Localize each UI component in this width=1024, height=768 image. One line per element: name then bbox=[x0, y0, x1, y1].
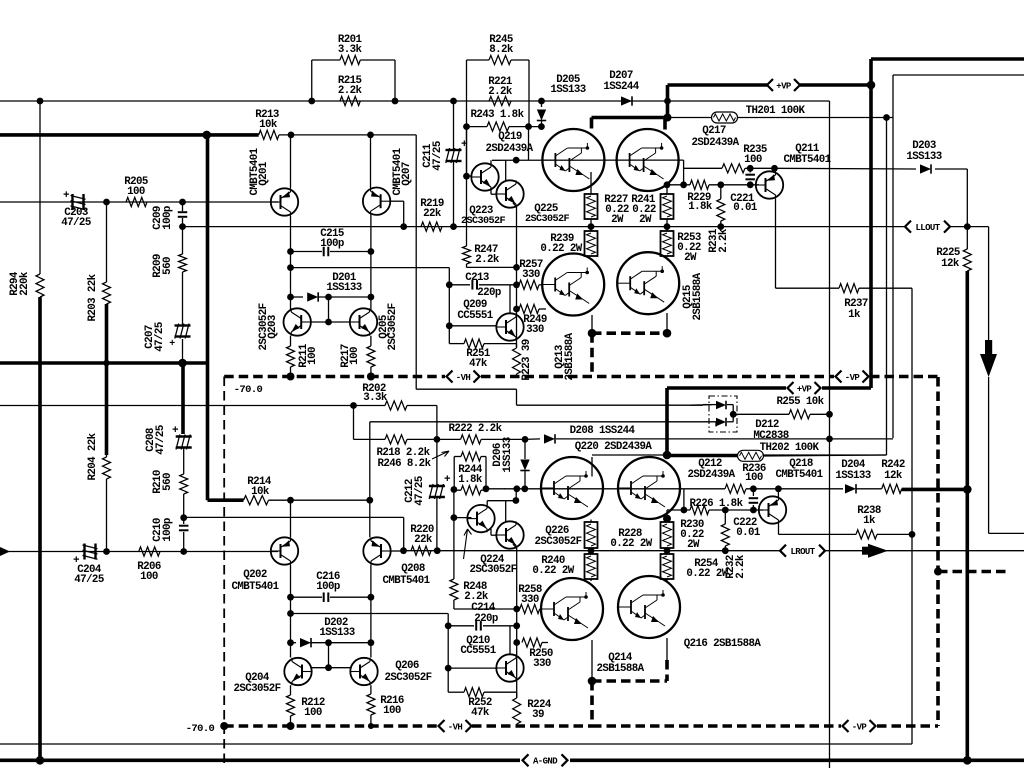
wire base link Q204-Q206 bbox=[312, 667, 350, 669]
svg-text:100p: 100p bbox=[162, 518, 174, 542]
label Q218 bbox=[775, 458, 823, 481]
label R214 bbox=[247, 476, 272, 498]
label R224 bbox=[527, 699, 552, 721]
label R239 bbox=[540, 233, 582, 255]
label Q215 bbox=[682, 272, 704, 320]
resistor R235 bbox=[684, 164, 775, 173]
node junction x516 y267 bbox=[513, 264, 520, 271]
capacitor C222 bbox=[749, 489, 759, 510]
wire +VP right vertical x=871 bbox=[869, 59, 873, 388]
resistor R218 bbox=[354, 435, 437, 444]
label C222 bbox=[733, 517, 761, 539]
label R212 bbox=[301, 697, 325, 719]
resistor R255 bbox=[789, 410, 810, 419]
label Q212 bbox=[687, 458, 735, 481]
svg-text:47/25: 47/25 bbox=[432, 141, 444, 171]
wire emitter dashed lower bbox=[592, 660, 667, 726]
svg-text:12k: 12k bbox=[884, 470, 903, 482]
net flag LROUT bbox=[780, 545, 825, 557]
resistor R247 bbox=[463, 246, 517, 267]
svg-text:-VH: -VH bbox=[448, 722, 463, 732]
label C221 bbox=[730, 193, 758, 214]
resistor R223 bbox=[513, 344, 521, 377]
wire thick input bus y=134.9 bbox=[0, 133, 259, 137]
svg-text:Q208: Q208 bbox=[401, 563, 425, 575]
label Q205 bbox=[378, 303, 399, 350]
label Q216 bbox=[684, 638, 762, 650]
resistor R243 bbox=[467, 122, 542, 131]
wire D212 bottom feed bbox=[715, 422, 717, 427]
resistor R222 bbox=[437, 435, 525, 444]
capacitor C216 bbox=[291, 592, 371, 602]
svg-text:Q203: Q203 bbox=[267, 315, 279, 339]
svg-text:0.01: 0.01 bbox=[733, 202, 758, 214]
resistor R237 bbox=[776, 284, 913, 293]
label -70.0 bottom bbox=[186, 723, 215, 735]
capacitor C221 bbox=[745, 168, 755, 185]
resistor R215 bbox=[340, 96, 360, 105]
svg-text:CMBT5401: CMBT5401 bbox=[775, 469, 823, 481]
label R258 bbox=[518, 584, 542, 606]
svg-text:TH201 100K: TH201 100K bbox=[746, 105, 806, 117]
wire right vertical x=886 bbox=[762, 118, 886, 456]
wire Q208 emitter up bbox=[369, 500, 371, 537]
label C207 bbox=[144, 322, 175, 352]
label R217 bbox=[340, 344, 361, 368]
wire feedback vertical x=912 bbox=[911, 288, 913, 744]
svg-text:1.8k: 1.8k bbox=[688, 201, 713, 213]
node junction R232 bottom bbox=[722, 547, 729, 554]
label R215 bbox=[338, 75, 363, 97]
svg-text:100: 100 bbox=[127, 186, 145, 198]
label D212 bbox=[753, 419, 788, 442]
svg-text:2SC3052F: 2SC3052F bbox=[387, 303, 399, 350]
label R236 bbox=[742, 463, 766, 484]
resistor R245 bbox=[467, 55, 530, 101]
transistor Q213 bbox=[542, 254, 604, 316]
resistor R228 bbox=[585, 520, 598, 551]
capacitor C203 bbox=[63, 190, 86, 210]
svg-text:100p: 100p bbox=[316, 581, 340, 593]
wire right box vertical x=829 bbox=[829, 101, 831, 768]
svg-text:-VP: -VP bbox=[852, 722, 868, 732]
net flag +VP lower bbox=[788, 382, 821, 394]
transistor Q219 bbox=[542, 129, 604, 191]
svg-text:330: 330 bbox=[521, 594, 539, 606]
wire x988 lower bbox=[989, 377, 1024, 533]
transistor Q225 bbox=[496, 180, 523, 207]
resistor R258 bbox=[520, 604, 543, 613]
label R294 bbox=[9, 271, 31, 296]
resistor R213 bbox=[259, 130, 279, 139]
node junction D202 right bbox=[368, 639, 375, 646]
wire thick VP down bbox=[667, 388, 871, 455]
label C204 bbox=[74, 564, 104, 586]
node junction base link bbox=[325, 319, 332, 326]
wire dashed stub y=571.5 bbox=[938, 570, 1006, 574]
label C212 bbox=[404, 476, 426, 506]
svg-text:1SS133: 1SS133 bbox=[835, 470, 870, 482]
diode D208 bbox=[544, 434, 555, 443]
node junction R219 right bbox=[450, 223, 457, 230]
svg-text:2SD2439A: 2SD2439A bbox=[485, 143, 533, 155]
node junction R214 a bbox=[287, 497, 294, 504]
node junction TH201 right bbox=[883, 114, 890, 121]
transistor Q205 bbox=[350, 308, 377, 335]
svg-text:R222 2.2k: R222 2.2k bbox=[449, 423, 503, 435]
svg-text:0.22 2W: 0.22 2W bbox=[532, 565, 574, 577]
node junction Q208 base bbox=[400, 547, 407, 554]
label R241 bbox=[631, 194, 656, 226]
svg-text:+: + bbox=[63, 190, 70, 202]
thermistor TH201 bbox=[712, 112, 738, 123]
wire LROUT to edge bbox=[825, 550, 1024, 552]
node junction C213 left bbox=[446, 281, 453, 288]
node junction +VP right bbox=[867, 81, 876, 90]
svg-text:Q220 2SD2439A: Q220 2SD2439A bbox=[575, 441, 653, 453]
svg-text:-70.0: -70.0 bbox=[234, 384, 263, 396]
label D204 bbox=[835, 459, 870, 482]
node junction emitter bus bbox=[588, 329, 597, 338]
diode D206 bbox=[520, 439, 529, 489]
resistor R209 bbox=[179, 227, 187, 326]
label R231 bbox=[708, 228, 730, 253]
resistor R229 bbox=[690, 180, 709, 189]
svg-text:100p: 100p bbox=[162, 206, 174, 230]
label R213 bbox=[255, 109, 279, 131]
resistor R252 bbox=[448, 688, 517, 697]
resistor R257 bbox=[519, 280, 542, 289]
net flag -VP upper bbox=[836, 371, 869, 383]
svg-text:R255 10k: R255 10k bbox=[776, 396, 824, 408]
node junction R294 top bbox=[37, 98, 44, 105]
label R226 bbox=[690, 498, 744, 510]
resistor R226 bbox=[690, 505, 709, 514]
svg-text:2W: 2W bbox=[684, 252, 697, 264]
label R255 bbox=[776, 396, 824, 408]
svg-text:2W: 2W bbox=[687, 539, 700, 551]
node junction C216 right bbox=[368, 594, 375, 601]
node junction bus x41 bbox=[0, 0, 1, 1]
svg-text:100: 100 bbox=[744, 154, 762, 166]
svg-text:1.8k: 1.8k bbox=[458, 474, 483, 486]
node junction x516 y285 bbox=[513, 281, 520, 288]
node junction thick bus bbox=[202, 131, 211, 140]
wire base rail lower bigq bbox=[504, 488, 684, 490]
wire Q209 collector bbox=[509, 285, 511, 314]
svg-text:LLOUT: LLOUT bbox=[915, 223, 940, 233]
transistor Q208 bbox=[363, 537, 390, 564]
wire dashed inner x=447.5 bbox=[0, 0, 1, 1]
node junction R241 bottom bbox=[664, 223, 671, 230]
node junction dashed tr bbox=[0, 0, 1, 1]
wire A-GND bus bbox=[0, 758, 1024, 762]
thermistor TH202 bbox=[738, 450, 764, 461]
resistor R201 bbox=[312, 55, 395, 101]
wire Q224 base lead bbox=[454, 489, 516, 535]
svg-text:2SD2439A: 2SD2439A bbox=[687, 469, 735, 481]
wire top thin rail bbox=[893, 75, 1024, 438]
svg-text:100: 100 bbox=[745, 472, 763, 484]
svg-text:2SC3052F: 2SC3052F bbox=[233, 683, 280, 695]
wire Q202 base bbox=[271, 551, 278, 553]
diode D201 bbox=[291, 292, 371, 301]
resistor R230 bbox=[661, 519, 674, 551]
wire dashed box left2 bbox=[0, 0, 1, 1]
wire bias vertical x=416 bbox=[416, 135, 516, 405]
label R216 bbox=[380, 695, 404, 717]
node junction Q201 emitter top bbox=[288, 132, 295, 139]
resistor R214 bbox=[244, 496, 370, 505]
wire Q210 base bbox=[448, 667, 496, 669]
node junction x416 y405 bbox=[0, 0, 1, 1]
node junction C215 left bbox=[287, 248, 294, 255]
label R204 bbox=[87, 432, 99, 480]
node junction x516 y642 bbox=[513, 639, 520, 646]
node junction R235 corner bbox=[680, 181, 687, 188]
wire Q226 emitter column lower bbox=[513, 544, 517, 698]
svg-text:2.2k: 2.2k bbox=[475, 254, 500, 266]
resistor R203 bbox=[103, 202, 111, 455]
wire bias line to D212 top bbox=[517, 404, 704, 406]
wire thick C208 feed bbox=[181, 363, 185, 434]
svg-text:1SS133: 1SS133 bbox=[502, 437, 514, 472]
node junction dashed bl bbox=[220, 722, 228, 730]
label R247 bbox=[474, 244, 500, 266]
label Q213 bbox=[554, 332, 576, 380]
svg-text:560: 560 bbox=[162, 257, 174, 275]
svg-text:CC5551: CC5551 bbox=[457, 310, 493, 322]
label TH202 bbox=[760, 442, 820, 454]
node junction y267 left bbox=[287, 264, 294, 271]
node junction R255 right bbox=[826, 411, 833, 418]
wire R244 to base rail bbox=[486, 488, 505, 490]
label R202 bbox=[362, 383, 388, 404]
wire thick collector run bbox=[592, 118, 668, 129]
svg-text:LROUT: LROUT bbox=[790, 547, 815, 557]
label Q208 bbox=[382, 563, 430, 587]
transistor Q218 bbox=[759, 496, 786, 523]
svg-text:Q202: Q202 bbox=[243, 569, 267, 581]
wire Q216 emitter dn bbox=[666, 638, 668, 662]
node junction C209 top bbox=[179, 199, 186, 206]
wire Q214 emitter dn bbox=[591, 640, 593, 681]
node junction R225 top bbox=[964, 223, 971, 230]
wire Q215 emitter lead bbox=[666, 313, 668, 333]
svg-text:330: 330 bbox=[526, 324, 544, 336]
label C213 bbox=[465, 272, 501, 299]
node junction base rail bbox=[513, 157, 520, 164]
node junction emitter Q212 bbox=[663, 515, 671, 523]
resistor R253 bbox=[661, 227, 674, 256]
label -70.0 top bbox=[234, 384, 263, 396]
node junction C214 left bbox=[445, 622, 452, 629]
arrow LROUT bbox=[862, 544, 888, 558]
label D205 bbox=[550, 74, 585, 96]
label R225 bbox=[936, 247, 960, 270]
wire +VP flag line bbox=[668, 83, 872, 87]
node junction bus R216 bbox=[368, 723, 374, 729]
wire input line y=202 bbox=[0, 201, 271, 203]
label R245 bbox=[489, 34, 514, 56]
node junction R228 bottom bbox=[588, 547, 595, 554]
resistor R227 bbox=[585, 172, 598, 227]
wire thick output vertical x=967 bbox=[965, 271, 969, 760]
label R257 bbox=[519, 259, 543, 281]
transistor Q210 bbox=[496, 654, 523, 681]
svg-text:100: 100 bbox=[307, 347, 319, 365]
node junction R220 right bbox=[434, 547, 441, 554]
wire C207 bottom bbox=[182, 339, 184, 363]
svg-text:Q217: Q217 bbox=[702, 125, 726, 137]
svg-text:1SS133: 1SS133 bbox=[319, 627, 354, 639]
wire base rail upper bigq bbox=[491, 160, 684, 194]
svg-text:2SC3052F: 2SC3052F bbox=[469, 564, 516, 576]
node junction bus x107 bbox=[103, 360, 109, 366]
label D201 bbox=[326, 272, 361, 294]
label Q209 bbox=[457, 299, 493, 322]
wire TH202 thick feed bbox=[667, 454, 738, 458]
label R211 bbox=[298, 343, 319, 368]
node junction D208 x829 bbox=[826, 436, 833, 443]
svg-text:2SC3052F: 2SC3052F bbox=[384, 672, 431, 684]
resistor R225 bbox=[963, 227, 971, 271]
wire y=101 to box corner bbox=[668, 100, 830, 102]
svg-text:47/25: 47/25 bbox=[414, 476, 426, 506]
wire LLOUT corner down bbox=[988, 227, 990, 352]
svg-text:Q201: Q201 bbox=[258, 161, 270, 186]
resistor R221 bbox=[489, 96, 511, 105]
label R223 bbox=[521, 339, 533, 380]
label R248 bbox=[463, 581, 489, 603]
transistor Q215 bbox=[617, 252, 679, 314]
net flag A-GND bbox=[523, 754, 568, 766]
label Q214 bbox=[596, 652, 644, 675]
node junction R244 right bbox=[483, 485, 490, 492]
label R232 bbox=[725, 554, 747, 579]
diode D207 bbox=[621, 96, 632, 105]
node junction R229 right bbox=[717, 181, 724, 188]
wire R213 line thin bbox=[279, 134, 416, 136]
svg-text:100: 100 bbox=[304, 707, 322, 719]
wire R243 brackets bbox=[467, 101, 530, 246]
label R250 bbox=[529, 648, 553, 670]
capacitor C210 bbox=[179, 518, 189, 552]
node junction agnd x40 bbox=[36, 756, 45, 765]
svg-text:3.3k: 3.3k bbox=[338, 44, 363, 56]
wire Q207 base corner bbox=[390, 201, 403, 226]
wire x453 vertical lower bbox=[451, 486, 517, 609]
svg-text:Q207: Q207 bbox=[401, 162, 413, 186]
wire emitter dashed bus upper bbox=[592, 333, 667, 376]
transistor Q203 bbox=[284, 308, 311, 335]
wire D202 to bases bbox=[328, 643, 330, 668]
wire lower main line y=405.5 bbox=[0, 405, 354, 407]
wire Q207 collector bbox=[370, 215, 372, 311]
wire Q209 base bbox=[449, 325, 496, 327]
label Q211 bbox=[783, 143, 831, 166]
label R230 bbox=[680, 519, 704, 551]
svg-text:47/25: 47/25 bbox=[155, 425, 167, 455]
node junction C203 right bbox=[103, 199, 110, 206]
label R242 bbox=[881, 459, 905, 482]
label R243 bbox=[471, 109, 525, 121]
node junction R201 left bbox=[308, 98, 315, 105]
label C208 bbox=[145, 425, 167, 455]
svg-text:220p: 220p bbox=[474, 613, 498, 625]
svg-text:-70.0: -70.0 bbox=[186, 723, 215, 735]
label R254 bbox=[686, 558, 728, 580]
transistor Q217 bbox=[617, 129, 679, 191]
label R210 bbox=[152, 470, 174, 494]
node junction C221 bottom bbox=[747, 181, 754, 188]
label R209 bbox=[152, 254, 174, 278]
node junction C210 top bbox=[180, 514, 187, 521]
capacitor C215 bbox=[291, 247, 371, 257]
node junction Q211 collector top bbox=[771, 165, 778, 172]
label R228 bbox=[610, 528, 652, 550]
resistor R248 bbox=[450, 579, 458, 600]
diode D212a bbox=[703, 401, 733, 410]
wire lower channel feedline bbox=[370, 422, 716, 500]
diode D204 bbox=[778, 484, 881, 493]
node junction dashed stub bbox=[934, 568, 942, 576]
wire dashed box right x=938 bbox=[936, 377, 940, 726]
svg-text:Q219: Q219 bbox=[498, 131, 522, 143]
svg-text:1SS133: 1SS133 bbox=[906, 151, 941, 163]
node junction +VP y101 bbox=[664, 98, 671, 105]
svg-text:2W: 2W bbox=[611, 214, 624, 226]
wire input line y=551.5 bbox=[0, 547, 271, 556]
label D208 bbox=[570, 425, 636, 437]
resistor R212 bbox=[287, 685, 295, 726]
svg-text:1SS133: 1SS133 bbox=[550, 84, 585, 96]
svg-text:TH202 100K: TH202 100K bbox=[760, 442, 820, 454]
resistor R241 bbox=[661, 185, 674, 227]
svg-text:0.22 2W: 0.22 2W bbox=[610, 538, 652, 550]
wire line y=613.5 bbox=[291, 613, 449, 615]
resistor R249 bbox=[519, 304, 546, 313]
node junction C216 left bbox=[287, 594, 294, 601]
svg-text:1k: 1k bbox=[848, 309, 861, 321]
wire R255 line bbox=[733, 413, 829, 415]
label R219 bbox=[420, 198, 444, 220]
label Q226 bbox=[534, 525, 581, 548]
resistor R205 bbox=[126, 197, 147, 206]
wire D212 box feed bbox=[690, 404, 712, 407]
transistor Q211 bbox=[756, 171, 783, 198]
label Q207 bbox=[392, 147, 413, 195]
svg-text:22k: 22k bbox=[414, 534, 433, 546]
wire R202 corner down bbox=[436, 406, 438, 440]
wire Q218 collector up bbox=[777, 489, 779, 497]
svg-text:22k: 22k bbox=[423, 208, 442, 220]
svg-text:D208 1SS244: D208 1SS244 bbox=[570, 425, 636, 437]
diode D202 bbox=[291, 638, 371, 647]
node junction Q207 emitter top bbox=[367, 132, 374, 139]
svg-text:0.22 2W: 0.22 2W bbox=[686, 568, 728, 580]
svg-text:220p: 220p bbox=[477, 287, 501, 299]
box D212 bbox=[709, 396, 737, 432]
node junction R236 corner bbox=[681, 507, 688, 514]
svg-text:1k: 1k bbox=[863, 515, 876, 527]
resistor R220 bbox=[411, 546, 431, 555]
node junction C210 bottom bbox=[180, 548, 187, 555]
resistor R224 bbox=[513, 692, 521, 726]
wire Q210 collector bbox=[509, 626, 511, 655]
wire +VP corner x871 bbox=[0, 0, 1, 1]
wire Q211 collector bbox=[774, 168, 776, 172]
